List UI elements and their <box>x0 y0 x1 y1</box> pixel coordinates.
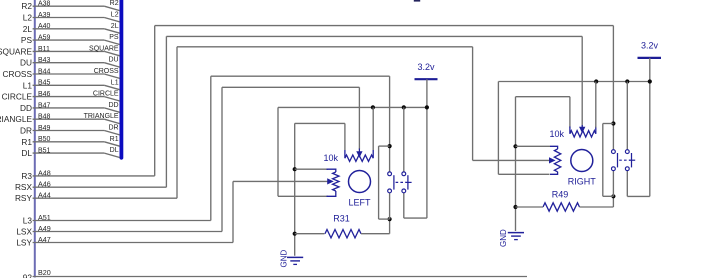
wire R31 left <box>295 233 325 235</box>
svg-text:B46: B46 <box>38 91 51 98</box>
wire LSX row <box>33 231 222 233</box>
wire left Y-pot bottom <box>278 195 328 197</box>
wire RSX drop to right X-pot wiper <box>581 36 583 127</box>
potentiometer left Y wiper arrow <box>328 179 333 183</box>
wire right X-pot right stem <box>595 82 597 128</box>
wire right Y-pot top <box>516 145 551 147</box>
pin A47 net LSY label <box>16 235 50 248</box>
svg-text:L1: L1 <box>23 80 33 90</box>
svg-text:PS: PS <box>21 35 33 45</box>
junction 3.2v / SW1 right <box>402 105 406 109</box>
pin B48 net TRIANGLE <box>0 113 120 124</box>
wire R3 riser <box>154 26 156 176</box>
svg-text:2L: 2L <box>23 24 33 34</box>
svg-text:CIRCLE: CIRCLE <box>93 91 119 98</box>
wire SW1 bottom-right link <box>404 217 427 219</box>
potentiometer left X wiper arrow <box>357 149 361 157</box>
svg-text:R3: R3 <box>21 171 32 181</box>
wire LSY riser <box>232 181 234 242</box>
wire LSY run to left Y-pot wiper <box>233 180 328 182</box>
wire R49 right <box>580 206 614 208</box>
wire SW2 bottom-right link <box>627 195 650 197</box>
wire L3 riser <box>210 76 212 220</box>
wire R31 right <box>361 233 390 235</box>
svg-text:TRIANGLE: TRIANGLE <box>84 113 119 120</box>
svg-text:LSY: LSY <box>16 238 32 248</box>
wire right bypass bottom <box>603 195 614 197</box>
wire LSX riser <box>221 87 223 231</box>
wire right bypass jog <box>603 123 614 125</box>
wire RSY row <box>33 197 177 199</box>
wire left Y-pot top <box>295 168 328 170</box>
junction 3.2v / R5 top <box>371 105 375 109</box>
svg-text:A39: A39 <box>38 12 51 19</box>
svg-text:L2: L2 <box>111 12 119 19</box>
switch SW2 <box>612 150 636 171</box>
pin B46 net CIRCLE <box>2 91 120 102</box>
pin A44 net RSY label <box>15 191 51 204</box>
junction gnd / Y-pot top <box>293 167 297 171</box>
potentiometer right X body <box>570 127 596 138</box>
pin A40 net 2L <box>23 23 120 34</box>
svg-text:B49: B49 <box>38 125 51 132</box>
junction 3.2v right stem <box>648 79 652 83</box>
pin A51 net L3 label <box>23 213 51 226</box>
wire RSY to right Y-pot wiper <box>473 159 549 161</box>
svg-text:3.2v: 3.2v <box>641 41 659 51</box>
wire RSX top run <box>166 35 582 37</box>
wire LSX top run <box>222 86 359 88</box>
pin A59 net PS <box>21 34 120 45</box>
svg-text:TRIANGLE: TRIANGLE <box>0 114 32 124</box>
wire left gnd riser <box>294 123 296 255</box>
svg-text:R2: R2 <box>110 0 119 7</box>
wire R3 top run <box>155 25 614 27</box>
svg-text:L2: L2 <box>23 13 33 23</box>
svg-text:GND: GND <box>279 250 288 268</box>
wire SW1 top-right stem <box>403 107 405 172</box>
potentiometer left X body <box>345 150 373 161</box>
pin A49 net LSX label <box>16 224 50 237</box>
wire R3 row <box>33 175 155 177</box>
ground right symbol <box>508 233 524 240</box>
junction left bypass top <box>388 144 392 148</box>
svg-text:DU: DU <box>20 58 32 68</box>
wire left bypass bottom <box>379 218 390 220</box>
wire left gnd bridge <box>295 122 345 124</box>
svg-text:DL: DL <box>21 148 32 158</box>
wire right gnd bridge <box>516 96 570 98</box>
pin B20 net GND <box>23 268 51 278</box>
junction 3.2v / SW2 right <box>625 79 629 83</box>
svg-text:10k: 10k <box>549 129 564 139</box>
pin B44 net CROSS <box>2 68 119 79</box>
bus net <box>120 0 124 158</box>
resistor R49 <box>543 203 580 211</box>
resistor R31 <box>325 230 361 238</box>
svg-text:CROSS: CROSS <box>94 68 119 75</box>
wire L3 row <box>33 220 211 222</box>
supply 3.2v left rail bar <box>415 78 438 80</box>
wire L3 drop to SW1 <box>389 76 391 172</box>
svg-text:B48: B48 <box>38 114 51 121</box>
pin A48 net R3 label <box>21 168 50 181</box>
pin B51 net DL <box>21 147 119 158</box>
svg-text:SQUARE: SQUARE <box>0 46 32 56</box>
wire RSY drop <box>472 47 474 161</box>
junction gnd / right Y-pot top <box>513 144 517 148</box>
wire 3.2v right run <box>498 81 649 83</box>
wire 3.2v right stem <box>649 58 651 197</box>
svg-text:R2: R2 <box>21 1 32 11</box>
potentiometer right Y wiper arrow <box>549 158 554 162</box>
cropped label top <box>414 0 420 2</box>
wire R49 left <box>516 206 544 208</box>
wire LSY row <box>33 242 233 244</box>
wire SW1 bottom-right stem <box>403 193 405 218</box>
joystick RIGHT body <box>571 150 593 172</box>
svg-text:2L: 2L <box>111 23 119 30</box>
svg-text:RSX: RSX <box>15 182 33 192</box>
svg-text:RSY: RSY <box>15 193 33 203</box>
wire SW1 bottom-left stem <box>389 193 391 219</box>
wire LSX drop to left X-pot wiper <box>358 87 360 149</box>
svg-text:A59: A59 <box>38 35 51 42</box>
svg-text:DR: DR <box>108 125 118 132</box>
pin B45 net L1 <box>23 79 120 90</box>
svg-text:DL: DL <box>110 147 119 154</box>
pin B11 net SQUARE <box>0 45 120 56</box>
svg-text:B43: B43 <box>38 57 51 64</box>
svg-text:SQUARE: SQUARE <box>89 45 119 52</box>
junction gnd / R49 <box>513 205 517 209</box>
svg-text:RIGHT: RIGHT <box>568 177 597 187</box>
svg-text:DD: DD <box>20 103 32 113</box>
junction 3.2v / R6 top <box>594 79 598 83</box>
wire B20 ground run <box>33 276 527 278</box>
wire RSY riser <box>176 47 178 198</box>
svg-text:B47: B47 <box>38 102 51 109</box>
wire left X-pot left stem <box>344 123 346 150</box>
connector edge line J1 <box>34 0 36 278</box>
wire RSX riser <box>165 36 167 187</box>
svg-text:B45: B45 <box>38 80 51 87</box>
svg-text:DU: DU <box>108 57 118 64</box>
potentiometer right Y body <box>550 146 561 174</box>
potentiometer right X wiper arrow <box>580 125 584 132</box>
pin A38 net R2 <box>21 0 119 11</box>
wire left bypass jog <box>379 145 390 147</box>
wire 3.2v left drop to Y-pot bottom <box>277 107 279 196</box>
switch SW1 <box>388 172 412 193</box>
potentiometer left Y body <box>327 169 340 196</box>
wire R31 up to junction <box>389 219 391 234</box>
wire R49 up to junction <box>612 196 614 207</box>
junction right bypass top <box>611 121 615 125</box>
wire 3.2v left run <box>278 106 427 108</box>
pin B49 net DR <box>20 125 120 136</box>
svg-text:A38: A38 <box>38 1 51 8</box>
wire left X-pot right stem <box>372 107 374 150</box>
svg-text:L1: L1 <box>111 79 119 86</box>
svg-text:A40: A40 <box>38 23 51 30</box>
wire RSY top run <box>177 46 473 48</box>
svg-text:R31: R31 <box>333 214 350 224</box>
wire SW2 bottom-right stem <box>626 171 628 197</box>
svg-text:DR: DR <box>20 126 32 136</box>
wire right gnd riser <box>515 97 517 231</box>
svg-text:CIRCLE: CIRCLE <box>2 92 33 102</box>
svg-text:LEFT: LEFT <box>348 198 371 208</box>
svg-text:GND: GND <box>499 229 508 247</box>
svg-text:3.2v: 3.2v <box>417 62 435 72</box>
svg-text:B51: B51 <box>38 148 51 155</box>
wire right Y-pot bottom <box>498 173 549 175</box>
svg-text:R1: R1 <box>21 137 32 147</box>
wire left bypass drop <box>378 146 380 219</box>
svg-text:B11: B11 <box>38 46 50 53</box>
svg-text:B50: B50 <box>38 136 51 143</box>
wire SW2 top-right stem <box>626 82 628 150</box>
wire 3.2v right drop to Y-pot bottom <box>497 82 499 175</box>
svg-text:B44: B44 <box>38 68 51 75</box>
svg-text:LSX: LSX <box>16 227 32 237</box>
ground left symbol <box>287 257 303 264</box>
joystick LEFT body <box>349 171 371 193</box>
svg-text:10k: 10k <box>323 153 338 163</box>
junction SW1 bottom-left <box>388 217 392 221</box>
pin A46 net RSX label <box>15 180 51 193</box>
pin B50 net R1 <box>21 136 119 147</box>
svg-text:R1: R1 <box>110 136 119 143</box>
pin B43 net DU <box>20 57 120 68</box>
junction 3.2v stem <box>425 105 429 109</box>
supply 3.2v right rail bar <box>638 57 662 59</box>
wire L3 top run <box>211 75 390 77</box>
wire RSX row <box>33 186 167 188</box>
pin B47 net DD <box>20 102 120 113</box>
wire 3.2v left stem <box>426 79 428 218</box>
svg-text:R49: R49 <box>552 190 569 200</box>
wire SW2 bottom-left stem <box>612 171 614 197</box>
svg-text:DD: DD <box>108 102 118 109</box>
wire right X-pot left stem <box>569 97 571 128</box>
svg-text:CROSS: CROSS <box>2 69 32 79</box>
svg-text:PS: PS <box>109 34 119 41</box>
wire right bypass drop <box>602 124 604 197</box>
svg-text:L3: L3 <box>23 216 33 226</box>
wire R3 drop to SW2 <box>612 26 614 150</box>
junction SW2 bottom-left <box>611 194 615 198</box>
pin A39 net L2 <box>23 12 120 23</box>
svg-text:92: 92 <box>23 273 33 278</box>
junction gnd / R31 <box>293 232 297 236</box>
